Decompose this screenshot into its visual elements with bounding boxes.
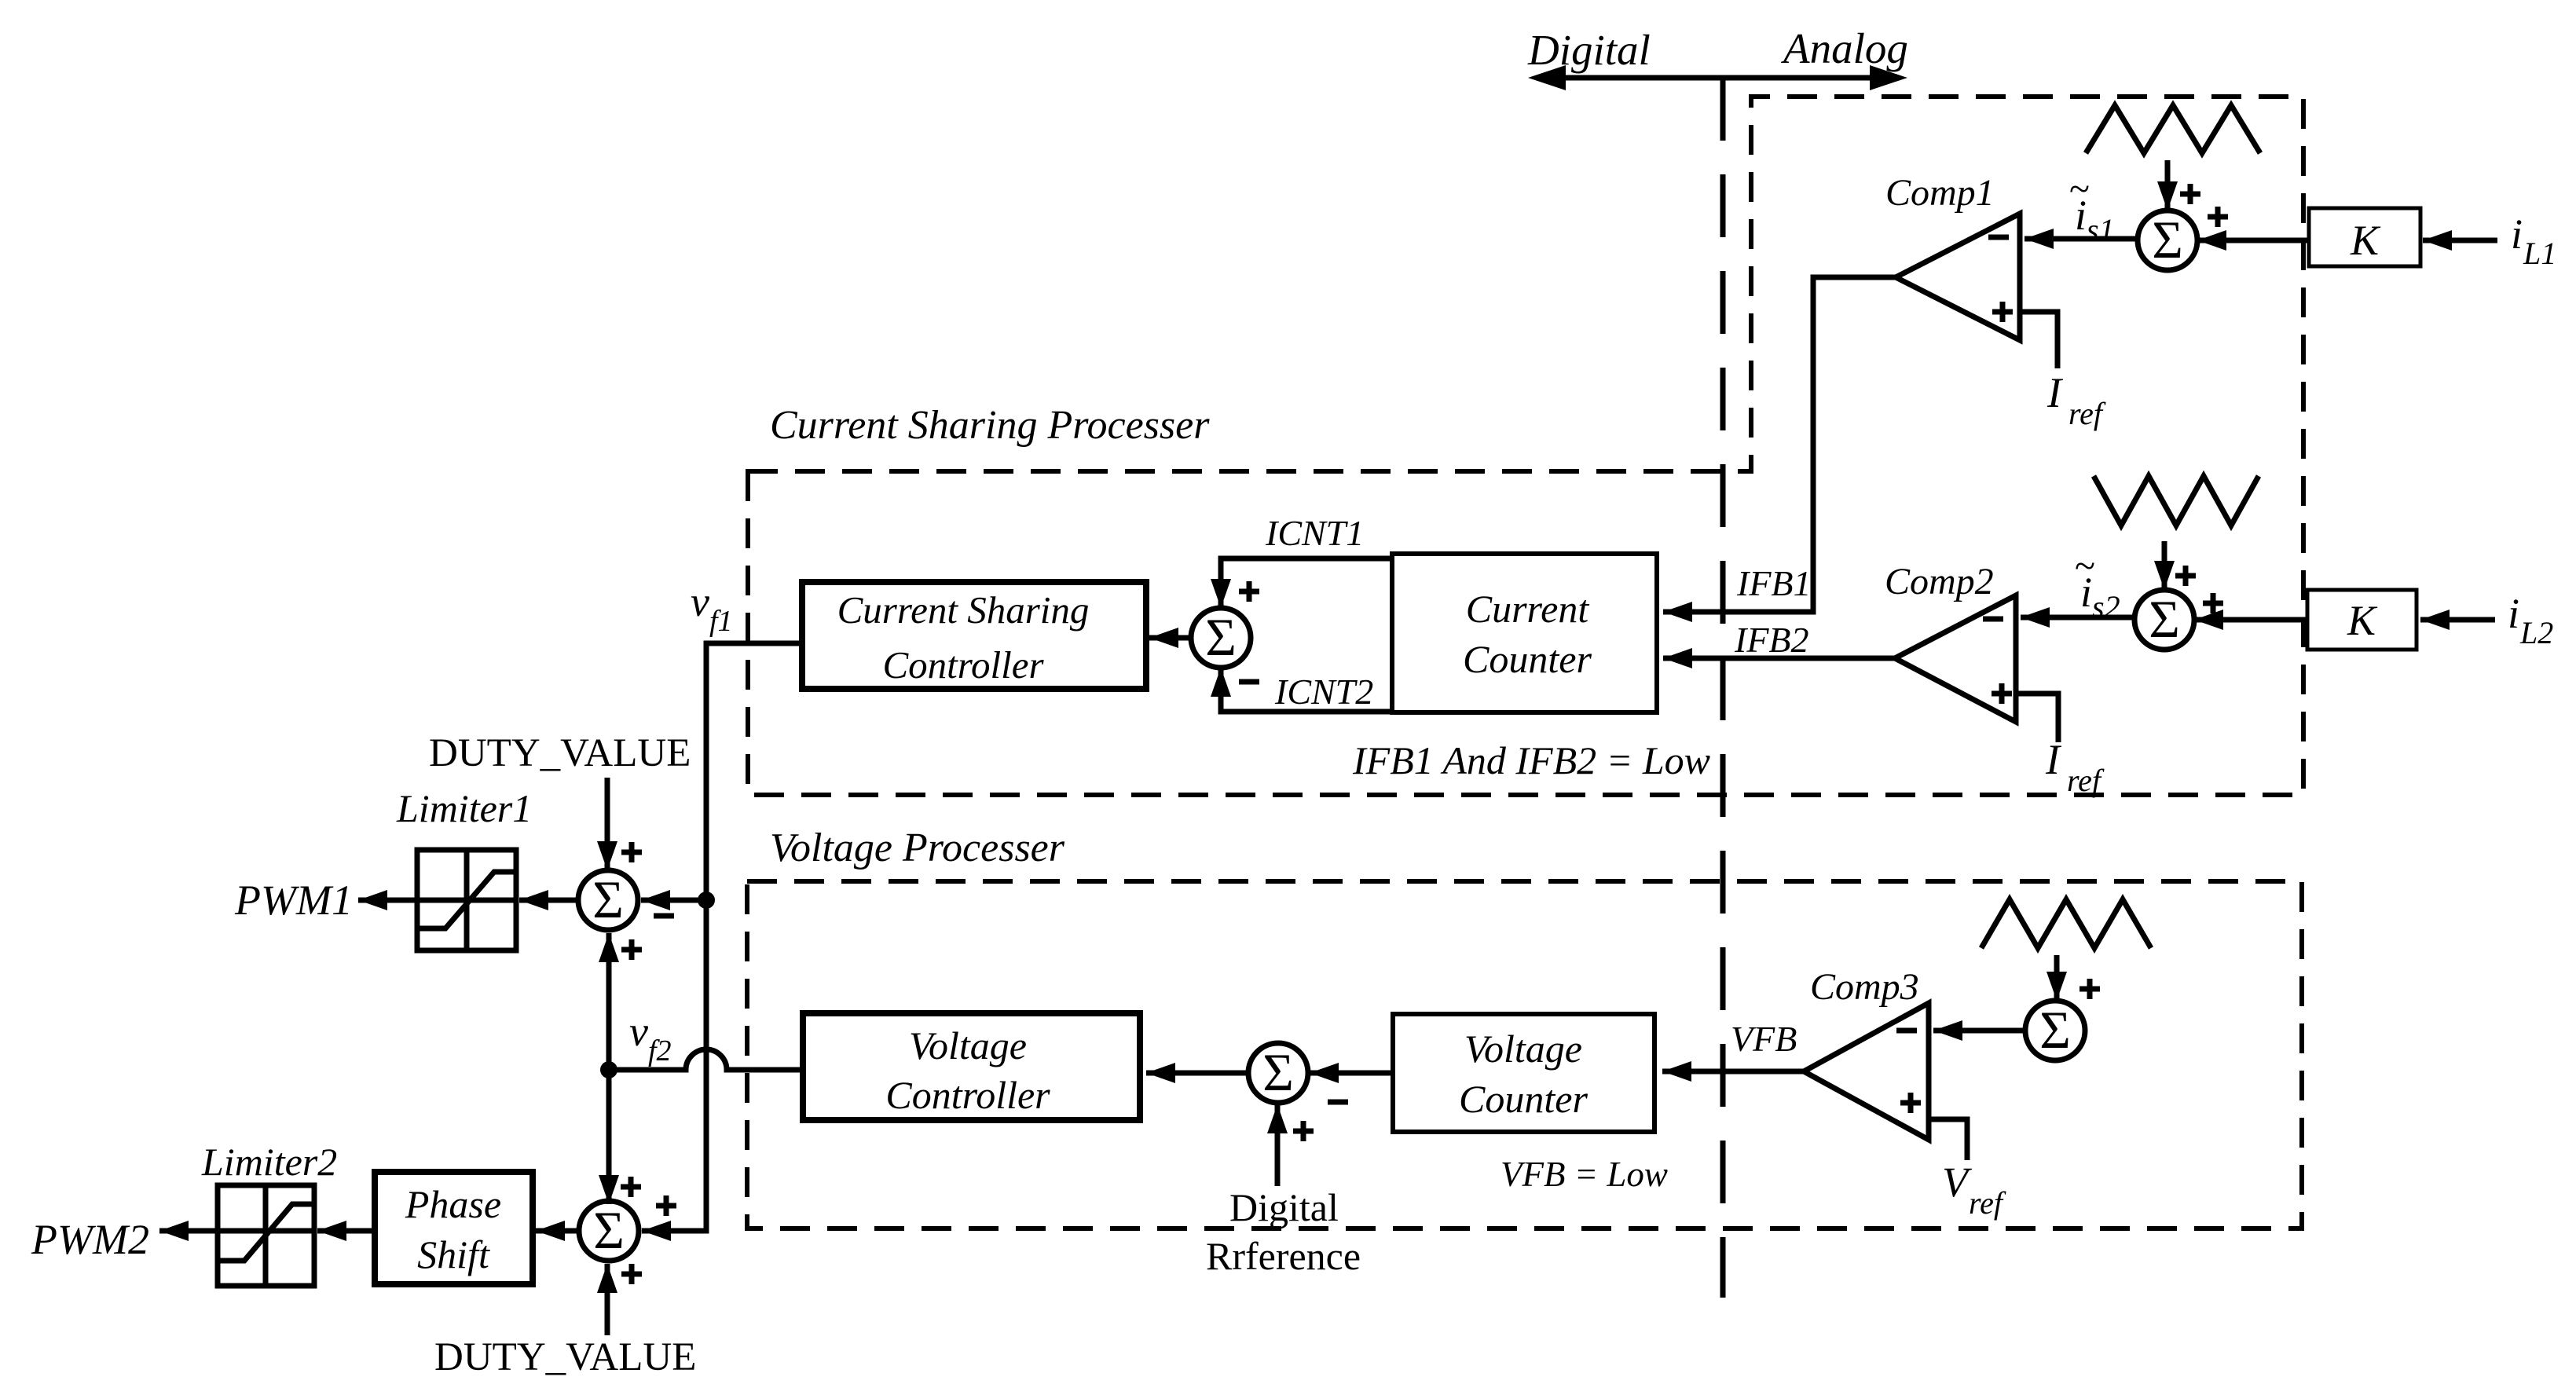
svg-text:Shift: Shift	[417, 1232, 490, 1276]
sawtooth carrier 3	[1981, 899, 2151, 948]
wire sawtooth1 to summer1	[2165, 160, 2171, 211]
svg-text:ref: ref	[2068, 396, 2106, 431]
node Vref label	[1942, 1159, 2006, 1221]
node Digital Rrference label	[1206, 1185, 1361, 1278]
block Limiter2	[218, 1185, 314, 1286]
wire Comp2 plus input to Iref2	[2016, 694, 2058, 742]
svg-text:ref: ref	[2067, 763, 2105, 798]
svg-text:f2: f2	[648, 1034, 672, 1067]
node plus sign summer2 top	[2175, 566, 2196, 586]
block Current Counter	[1392, 554, 1657, 712]
wire Comp1 output to current counter IFB1	[1663, 277, 1896, 612]
wire summer3 to current sharing controller	[1149, 635, 1191, 641]
svg-text:Voltage: Voltage	[909, 1023, 1027, 1067]
svg-text:Limiter1: Limiter1	[396, 786, 532, 830]
wire summer PWM2 to phase shift	[536, 1228, 579, 1234]
wire K2 to summer2	[2194, 617, 2307, 623]
svg-text:VFB = Low: VFB = Low	[1501, 1155, 1668, 1194]
svg-text:Voltage: Voltage	[1464, 1027, 1582, 1071]
svg-text:VFB: VFB	[1731, 1019, 1797, 1059]
wire sawtooth3 to summer5	[2054, 955, 2060, 1001]
svg-text:DUTY_VALUE: DUTY_VALUE	[434, 1335, 696, 1379]
svg-text:Σ: Σ	[593, 1200, 625, 1260]
wire current counter ICNT2 to summer3	[1221, 668, 1392, 712]
svg-text:Digital: Digital	[1229, 1185, 1339, 1229]
svg-text:Σ: Σ	[1262, 1042, 1294, 1102]
block K2	[2307, 590, 2417, 650]
node minus sign summer PWM1 right	[654, 914, 674, 919]
svg-text:Comp1: Comp1	[1885, 172, 1995, 214]
wire current counter ICNT1 to summer3	[1221, 558, 1392, 608]
svg-text:Limiter2: Limiter2	[201, 1140, 337, 1184]
svg-text:ref: ref	[1969, 1185, 2006, 1221]
block Voltage Controller	[803, 1013, 1140, 1120]
summer4 sigma	[1248, 1042, 1308, 1103]
svg-text:K: K	[2347, 597, 2378, 644]
svg-text:Σ: Σ	[2149, 589, 2180, 649]
node iL2 label	[2508, 590, 2553, 650]
svg-text:~: ~	[2075, 545, 2095, 587]
svg-text:Digital: Digital	[1527, 26, 1651, 74]
wire vf2 junction down to summer PWM2 top	[606, 1070, 612, 1204]
wire voltage counter to summer4	[1310, 1071, 1393, 1076]
svg-text:Σ: Σ	[2152, 210, 2183, 269]
block Voltage Counter	[1393, 1014, 1654, 1132]
summer PWM2 sigma	[579, 1200, 639, 1261]
node is2 label	[2075, 545, 2120, 624]
wire limiter2 to PWM2	[159, 1228, 218, 1234]
op-amp Comp1	[1896, 214, 2020, 340]
summer2 sigma	[2134, 589, 2194, 650]
wire Comp1 plus input to Iref1	[2020, 312, 2058, 368]
wire summer PWM1 to limiter1	[519, 898, 578, 903]
svg-text:ICNT2: ICNT2	[1274, 672, 1373, 712]
wire Comp3 output VFB to voltage counter	[1662, 1069, 1804, 1075]
svg-text:L2: L2	[2519, 615, 2553, 650]
svg-text:I: I	[2047, 369, 2064, 416]
wire sawtooth2 to summer2	[2162, 541, 2167, 590]
svg-text:f1: f1	[709, 605, 733, 638]
node vf2 label	[629, 1008, 672, 1067]
svg-text:Counter: Counter	[1463, 637, 1592, 681]
svg-text:v: v	[691, 578, 709, 625]
node plus sign summer PWM1 bottom	[621, 939, 642, 960]
wire top digital/analog divider arrow	[1528, 65, 1907, 90]
svg-text:~: ~	[2069, 168, 2090, 210]
sawtooth carrier 1	[2086, 105, 2260, 153]
wire summer2 to Comp2 minus input	[2021, 615, 2134, 621]
wire limiter1 to PWM1	[358, 898, 417, 903]
wire iL1 input	[2423, 238, 2497, 243]
svg-text:Phase: Phase	[405, 1182, 501, 1226]
svg-text:IFB1 And IFB2 = Low: IFB1 And IFB2 = Low	[1352, 738, 1710, 782]
svg-text:DUTY_VALUE: DUTY_VALUE	[429, 731, 691, 775]
block Limiter1	[417, 850, 516, 950]
node plus sign summer PWM2 top	[621, 1177, 641, 1197]
wire vf1 junction to summer PWM1	[641, 898, 706, 903]
wire vf2 from voltage controller to junction	[617, 1049, 803, 1070]
node Iref2 label	[2045, 736, 2105, 798]
svg-text:K: K	[2350, 217, 2381, 264]
wire vf1 from controller down to summer PWM2	[642, 643, 802, 1231]
node iL1 label	[2511, 211, 2556, 271]
wire summer1 to Comp1 minus input	[2025, 236, 2138, 242]
svg-text:PWM2: PWM2	[31, 1216, 149, 1263]
svg-text:Controller: Controller	[885, 1073, 1050, 1117]
wire DUTY_VALUE bottom into summer PWM2	[605, 1264, 610, 1335]
node minus sign summer3 bottom	[1239, 679, 1259, 685]
wire K1 to summer1	[2197, 238, 2309, 243]
node junction dot vf2	[600, 1061, 617, 1078]
svg-text:I: I	[2045, 736, 2062, 783]
summer1 sigma	[2138, 210, 2197, 270]
wire phase shift to limiter2	[317, 1228, 375, 1234]
svg-text:L1: L1	[2523, 236, 2556, 271]
wire summer4 to voltage controller	[1146, 1071, 1248, 1076]
svg-text:s2: s2	[2092, 589, 2120, 624]
node junction dot vf1	[698, 892, 715, 909]
wire Comp2 output to current counter IFB2	[1663, 656, 1895, 661]
summer5 sigma	[2025, 1000, 2085, 1060]
node vf1 label	[691, 578, 733, 638]
svg-text:s1: s1	[2087, 212, 2115, 247]
svg-text:IFB2: IFB2	[1734, 620, 1809, 660]
svg-text:Controller: Controller	[882, 643, 1044, 687]
node is1 label	[2069, 168, 2115, 247]
wire iL2 input	[2420, 617, 2495, 623]
wire digital reference into summer4	[1275, 1104, 1281, 1186]
svg-text:Analog: Analog	[1780, 24, 1908, 72]
svg-text:i: i	[2508, 590, 2519, 637]
node Current Sharing Processer dashed box with analog box	[748, 97, 2303, 795]
svg-text:Current Sharing: Current Sharing	[837, 588, 1090, 632]
summer3 sigma	[1191, 607, 1251, 668]
wire vf2 junction up to summer PWM1 bottom	[606, 933, 612, 1070]
node plus sign summer3 top	[1239, 581, 1259, 602]
block Phase Shift	[375, 1172, 533, 1284]
node plus sign summer1 top	[2180, 184, 2200, 204]
node plus sign summer PWM2 right	[656, 1195, 676, 1216]
svg-text:v: v	[629, 1008, 648, 1055]
node Iref1 label	[2047, 369, 2106, 431]
svg-text:i: i	[2511, 211, 2523, 258]
node plus sign summer4 bottom	[1293, 1121, 1314, 1141]
block Current Sharing Controller	[802, 582, 1146, 689]
wire digital/analog boundary vertical dashed line	[1720, 78, 1726, 1298]
svg-text:ICNT1: ICNT1	[1265, 513, 1364, 553]
node minus sign summer4 right	[1328, 1100, 1348, 1105]
svg-text:Current Sharing Processer: Current Sharing Processer	[770, 403, 1210, 448]
svg-text:Σ: Σ	[592, 870, 624, 929]
svg-text:Comp2: Comp2	[1885, 561, 1994, 602]
svg-text:Rrference: Rrference	[1206, 1234, 1361, 1278]
node plus sign summer5 top	[2079, 979, 2100, 999]
node plus sign summer PWM2 bottom	[621, 1264, 642, 1284]
svg-text:Current: Current	[1466, 587, 1590, 631]
wire Comp3 plus input to Vref	[1929, 1119, 1967, 1160]
svg-text:Counter: Counter	[1459, 1077, 1588, 1121]
node plus sign summer2 right	[2203, 593, 2223, 613]
wire DUTY_VALUE top into summer PWM1	[605, 778, 610, 870]
svg-text:Voltage Processer: Voltage Processer	[770, 826, 1065, 870]
svg-text:PWM1: PWM1	[234, 877, 353, 924]
svg-text:IFB1: IFB1	[1736, 563, 1812, 603]
node plus sign summer1 right	[2208, 207, 2228, 227]
svg-text:Comp3: Comp3	[1810, 966, 1919, 1008]
node plus sign summer PWM1 top	[621, 842, 642, 862]
sawtooth carrier 2	[2094, 476, 2259, 525]
svg-text:Σ: Σ	[2039, 1000, 2071, 1060]
node Voltage Processer dashed box	[747, 881, 2302, 1228]
svg-text:Σ: Σ	[1205, 607, 1237, 667]
op-amp Comp2	[1895, 595, 2016, 722]
summer PWM1 sigma	[578, 870, 638, 930]
wire summer5 to Comp3 minus input	[1933, 1028, 2025, 1034]
block K1	[2309, 208, 2420, 266]
op-amp Comp3	[1804, 1003, 1929, 1140]
